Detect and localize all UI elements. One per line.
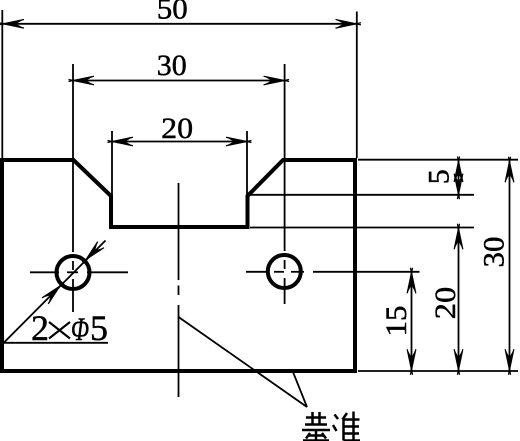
svg-text:15: 15 [380,306,413,337]
hole right (2xPhi5), center (284.3,271.5) [268,255,301,288]
bottom surface extension (for 15, 20, 30) [358,370,518,372]
dim 20 right: dimension line [458,228,460,371]
chamfer-bottom extension (bottom of 5) [250,194,474,196]
glyph JI (base) [306,416,326,419]
svg-text:30: 30 [157,49,187,82]
dim 20 top: extension lines [112,131,247,195]
svg-text:Φ: Φ [71,311,89,348]
dim 15 right: arrows [407,268,416,294]
dim 20 top: arrows [108,137,134,146]
dim 5 right: dimension line [458,161,460,195]
top surface extension (for 5 and 30) [358,159,518,161]
part outline (thick) [2,160,355,371]
dim 50: extension lines [2,10,357,158]
notch-bottom extension (top of 20) [250,227,474,229]
svg-text:5: 5 [90,308,108,348]
datum label "ji zhun" hand-drawn glyphs [302,412,360,441]
hole right vertical centerline + 30-dim right extension, x=284.6 [284,64,286,304]
leader 2xPhi5: arrow at lower-left hole edge [42,280,66,304]
dim 50: arrows [0,20,24,29]
datum leader B (from bottom edge) [293,372,307,407]
leader 2xPhi5: diameter leader line through hole [4,241,106,343]
dim 30 right: arrows [505,157,514,183]
svg-text:20: 20 [161,112,193,145]
part vertical centerline (dash-dot), x=178.5 [178,183,180,397]
svg-text:20: 20 [429,287,462,320]
hole left horizontal centerline [30,271,128,273]
svg-text:50: 50 [157,0,188,26]
hole left vertical centerline + 30-dim left extension, x=73 [72,64,74,312]
leader 2xPhi5: underline [4,342,108,344]
right side shared extension lines [250,160,518,371]
hole right horizontal centerline (continues right as 15-dim extension) [246,271,420,273]
svg-text:5: 5 [423,169,456,184]
hole left (2xPhi5), center (73,272.5) [57,256,90,289]
dim 30 top: dimension line [73,80,285,82]
dim 5 right: arrows [454,157,463,183]
dim 30 top: arrows [69,76,95,85]
dim 15 right: dimension line [411,272,413,371]
dim 30 right: dimension line [509,161,511,371]
leader 2xPhi5: multiplication cross [49,322,70,339]
dim 20 top: dimension line [112,141,247,143]
dim 50: dimension line [3,23,357,25]
glyph ZHUN (accurate) [335,415,339,420]
leader 2xPhi5: arrow at upper-right hole edge [80,242,104,266]
dim 20 right: arrows [454,224,463,250]
svg-text:2: 2 [31,308,49,348]
datum leader A (from part centerline) [179,317,308,407]
svg-text:30: 30 [478,237,511,268]
